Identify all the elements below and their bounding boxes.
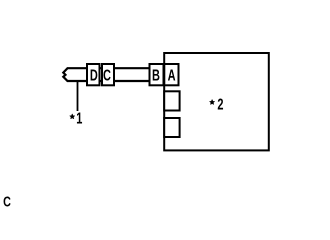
svg-text:C: C (3, 193, 11, 210)
svg-text:C: C (103, 67, 111, 84)
svg-text:2: 2 (217, 95, 223, 112)
svg-text:A: A (168, 67, 176, 84)
svg-text:D: D (90, 67, 98, 84)
svg-text:B: B (152, 67, 160, 84)
svg-text:1: 1 (76, 109, 82, 126)
